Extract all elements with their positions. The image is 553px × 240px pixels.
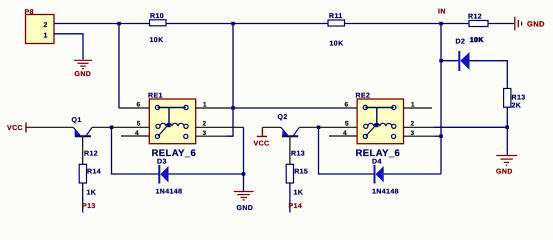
relay RE1 — [148, 93, 196, 160]
relay RE2 — [356, 93, 404, 160]
svg-text:P13: P13 — [82, 203, 96, 210]
RE2 pin 2 — [404, 126, 435, 128]
svg-text:R12: R12 — [468, 13, 482, 20]
wire RE2 pin3 to vertical — [434, 135, 441, 137]
svg-text:GND: GND — [75, 71, 92, 78]
svg-text:R13: R13 — [291, 150, 305, 157]
transistor Q2 — [278, 114, 319, 164]
node junction on rail x=441 — [439, 22, 443, 26]
wire D4 anode to vertical x=441 — [384, 173, 441, 175]
node junction x=441 D2 — [439, 59, 443, 63]
wire R14 down to port — [82, 183, 84, 213]
diode D2 — [456, 39, 470, 72]
svg-text:2K: 2K — [512, 103, 522, 110]
svg-text:10K: 10K — [150, 37, 164, 44]
svg-text:GND: GND — [237, 205, 254, 212]
svg-text:6: 6 — [345, 102, 349, 109]
svg-text:P14: P14 — [289, 203, 303, 210]
RE1 pin 6 — [119, 107, 149, 109]
resistor R15 (with R13 label) — [286, 150, 308, 196]
svg-text:R14: R14 — [87, 168, 101, 175]
wire R13 to junction — [506, 107, 508, 127]
RE1 pin 2 — [196, 126, 244, 128]
svg-text:5: 5 — [137, 120, 141, 127]
svg-text:10K: 10K — [470, 37, 484, 44]
svg-text:IN: IN — [438, 9, 446, 16]
wire vertical x=111.5 down to D3 row — [112, 127, 159, 174]
wire junction to RE1 pin5 — [112, 126, 150, 128]
wire vertical x=119 rail to RE1 pin6 — [118, 24, 120, 109]
svg-text:GND: GND — [527, 20, 545, 29]
RE1 pin 3 — [196, 135, 226, 137]
svg-text:D4: D4 — [372, 158, 382, 165]
svg-text:RELAY_6: RELAY_6 — [356, 148, 401, 159]
wire D2 anode to R13 — [470, 61, 508, 89]
svg-text:6: 6 — [137, 102, 141, 109]
svg-text:R10: R10 — [150, 13, 164, 20]
svg-text:1K: 1K — [294, 189, 304, 196]
svg-text:VCC: VCC — [7, 125, 23, 132]
node junction on rail x=233 — [231, 22, 235, 26]
transistor Q1 — [72, 117, 112, 164]
wire rail R10 to R11 — [166, 23, 328, 25]
svg-text:2: 2 — [44, 22, 48, 29]
diode D3 — [156, 158, 183, 195]
svg-text:GND: GND — [496, 169, 513, 176]
wire rail R11 to R12 — [345, 23, 470, 25]
node junction x=243.5 D3 row — [242, 172, 246, 176]
RE1 pin 4 — [121, 135, 149, 137]
node junction x=507 pin2 row — [505, 126, 509, 130]
resistor R14 (with R12 label) — [79, 150, 101, 196]
wire RE1 pin2 down to D3 anode row — [243, 127, 245, 174]
svg-text:R15: R15 — [294, 168, 308, 175]
resistor R13 — [504, 89, 526, 110]
power VCC (right) — [257, 127, 267, 136]
node junction Q1 collector x=111.5 — [110, 126, 114, 130]
ground GND (P8) — [74, 60, 92, 68]
node junction RE1 pin1 x=233 — [231, 106, 235, 110]
ground GND (R13) — [496, 156, 517, 166]
RE2 pin 4 — [329, 135, 357, 137]
wire junction to RE2 pin5 — [319, 126, 358, 128]
resistor R12 — [468, 13, 488, 44]
RE2 pin 3 — [404, 135, 435, 137]
wire D3 anode to pin2 drop / GND — [169, 173, 244, 175]
svg-text:1N4148: 1N4148 — [156, 189, 183, 196]
diode D4 — [372, 158, 399, 195]
svg-text:D2: D2 — [456, 39, 466, 46]
svg-text:10K: 10K — [330, 41, 344, 48]
wire vertical x=318.5 down to D4 row — [319, 127, 374, 174]
node junction x=441 pin3 — [439, 134, 443, 138]
wire down to ground — [506, 127, 508, 155]
svg-text:VCC: VCC — [254, 140, 270, 147]
svg-text:1: 1 — [44, 33, 48, 40]
wire down to ground — [243, 174, 245, 191]
svg-text:1N4148: 1N4148 — [372, 189, 399, 196]
resistor R10 — [150, 13, 167, 44]
svg-text:3: 3 — [411, 130, 415, 137]
svg-text:5: 5 — [345, 120, 349, 127]
svg-text:1: 1 — [203, 102, 207, 109]
svg-text:1: 1 — [411, 102, 415, 109]
resistor R11 — [328, 13, 345, 48]
connector P8 — [25, 9, 55, 44]
svg-text:4: 4 — [135, 130, 139, 137]
node junction on rail x=119 — [117, 22, 121, 26]
svg-text:R11: R11 — [329, 13, 343, 20]
wire VCC to Q1 emitter — [26, 126, 73, 128]
svg-text:R12: R12 — [84, 150, 98, 157]
svg-text:Q1: Q1 — [72, 117, 82, 124]
svg-text:RELAY_6: RELAY_6 — [152, 148, 197, 159]
wire RE1 pin1 junction to RE2 pin6 — [233, 107, 357, 109]
wire VCC to Q2 emitter — [262, 126, 281, 128]
wire R15 down to port — [289, 183, 291, 213]
svg-text:Q2: Q2 — [278, 114, 288, 121]
wire vertical to D2 cathode — [441, 60, 458, 62]
wire P8 pin2 to rail — [54, 23, 150, 25]
svg-text:D3: D3 — [157, 158, 167, 165]
wire RE2 pin2 to R13 junction — [434, 126, 507, 128]
svg-text:2: 2 — [411, 120, 415, 127]
svg-text:3: 3 — [203, 130, 207, 137]
power ground bar (rotated GND, top right) — [515, 17, 522, 31]
RE1 pin 1 — [196, 107, 233, 109]
ground GND (RE1 section) — [234, 192, 254, 200]
svg-text:1K: 1K — [87, 189, 97, 196]
wire P8 pin1 to ground — [54, 34, 83, 60]
wire R12 to power bar — [488, 23, 514, 25]
svg-text:R13: R13 — [512, 95, 526, 102]
svg-text:4: 4 — [343, 130, 347, 137]
wire vertical x=441 rail to D4 row — [440, 24, 442, 175]
wire vertical x=233 rail to RE1 pin3 row — [226, 24, 233, 137]
node junction Q2 collector x=318.5 — [317, 126, 321, 130]
svg-text:2: 2 — [203, 120, 207, 127]
RE2 pin 1 — [404, 107, 433, 109]
